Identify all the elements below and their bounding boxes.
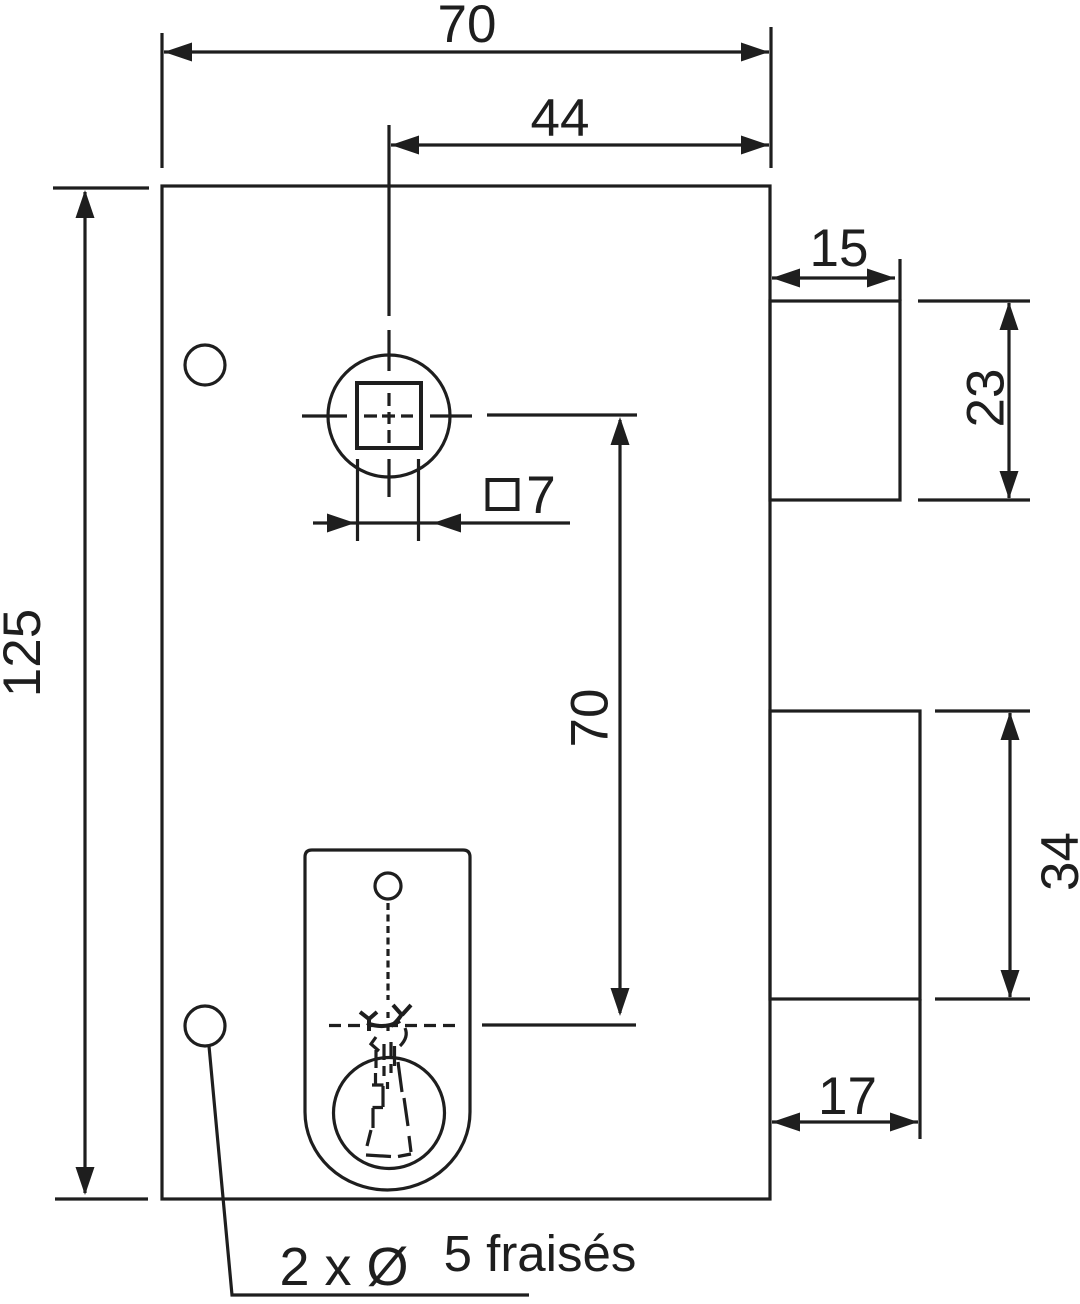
keyhole dashed vertical centerline — [386, 903, 389, 1000]
follower vertical center mark dashes — [387, 393, 390, 443]
svg-text:2 x Ø: 2 x Ø — [279, 1237, 408, 1297]
dim 17: dimension line — [772, 1120, 918, 1123]
dim 70 top: right extension line — [769, 27, 772, 168]
dim 125: top extension line — [53, 186, 149, 189]
dim 70 vertical: top extension line — [487, 413, 637, 416]
dim 70 vertical: top arrow — [611, 417, 630, 445]
follower vertical centerline below — [387, 459, 390, 497]
square symbol of label 7 — [488, 480, 518, 509]
follower square hole 7x7 — [357, 383, 421, 448]
svg-text:5 fraisés: 5 fraisés — [444, 1225, 637, 1282]
svg-text:7: 7 — [526, 466, 555, 525]
dim 70 top: left arrow — [164, 43, 192, 62]
follower neck line right — [417, 459, 420, 541]
dim 44: left arrow — [391, 136, 419, 155]
dim 70 top: dimension line — [164, 50, 769, 53]
dim 44: right arrow — [741, 136, 769, 155]
faceplate right extension line — [898, 259, 901, 301]
hidden key silhouette: head right hook — [391, 1005, 411, 1026]
dim 17: right arrow — [890, 1113, 918, 1132]
dim 70 top: right arrow — [741, 43, 769, 62]
hidden key silhouette: right lower hook — [400, 1028, 406, 1046]
dim 34: bottom extension line — [935, 997, 1030, 1000]
dim 15: left arrow — [772, 269, 800, 288]
follower horizontal centerline left tick — [302, 414, 347, 417]
dim 23: top arrow — [1000, 302, 1019, 330]
svg-text:70: 70 — [438, 0, 497, 54]
dim 125: dimension line — [83, 192, 86, 1193]
dim 7: right arrow (points left) — [433, 514, 461, 533]
keyhole cylinder housing outline — [305, 850, 470, 1190]
hidden key silhouette: bottom dashes — [366, 1154, 411, 1157]
dim 34: bottom arrow — [1001, 970, 1020, 998]
follower horizontal centerline right tick — [430, 414, 472, 417]
hidden key silhouette: head left Y mark — [360, 1012, 377, 1031]
keyhole dashed horizontal centerline — [329, 1024, 456, 1027]
svg-text:34: 34 — [1031, 832, 1080, 891]
dim 34: top arrow — [1001, 712, 1020, 740]
bolt right extension line down — [918, 999, 921, 1139]
dim 125: bottom arrow — [76, 1167, 95, 1195]
follower vertical centerline upper — [387, 125, 390, 316]
keyhole big circle — [334, 1058, 445, 1169]
follower circle — [328, 355, 450, 477]
dim 125: bottom extension line — [55, 1197, 148, 1200]
dim 23: bottom extension line — [918, 498, 1030, 501]
dim 23: bottom arrow — [1000, 471, 1019, 499]
keyhole top small circle — [375, 873, 401, 899]
dim 15: dimension line — [772, 276, 895, 279]
hidden key silhouette: right diagonal dashes — [398, 1062, 411, 1152]
dim 34: dimension line — [1008, 713, 1011, 997]
dim 23: dimension line — [1007, 303, 1010, 498]
svg-text:17: 17 — [818, 1067, 877, 1126]
follower horizontal center mark dashes — [364, 414, 413, 417]
dim 7: left arrow (points right) — [327, 514, 355, 533]
dim 44: dimension line — [391, 143, 769, 146]
dim 70 vertical: bottom extension line — [482, 1023, 636, 1026]
dim 70 vertical: dimension line — [618, 420, 621, 1013]
svg-text:70: 70 — [561, 689, 620, 748]
dim 7: dimension line — [313, 521, 570, 524]
svg-text:44: 44 — [531, 89, 590, 148]
hidden key silhouette: left bit steps — [367, 1073, 384, 1146]
dim 125: top arrow — [76, 190, 95, 218]
dim 70 top: left extension line — [160, 33, 163, 168]
lock body outline — [162, 186, 770, 1199]
svg-text:125: 125 — [0, 609, 52, 697]
svg-text:23: 23 — [957, 369, 1016, 428]
hidden key silhouette: center dots in head — [386, 1012, 389, 1031]
dim 70 vertical: bottom arrow — [611, 988, 630, 1016]
hole top-left — [185, 345, 225, 385]
top faceplate box (15x23) — [770, 301, 900, 500]
leader line from bottom-left hole — [209, 1046, 529, 1295]
bolt box (17x34) — [770, 711, 920, 999]
dim 34: top extension line — [935, 709, 1030, 712]
hole bottom-left — [185, 1006, 225, 1046]
hidden key silhouette: left shoulder — [371, 1037, 379, 1051]
follower neck line left — [356, 459, 359, 541]
dim 17: left arrow — [772, 1113, 800, 1132]
hidden key silhouette: head smile arc — [367, 1021, 400, 1026]
dim 23: top extension line — [918, 299, 1030, 302]
svg-text:15: 15 — [810, 219, 869, 278]
hidden key silhouette: stem dashes — [376, 1042, 395, 1089]
follower vertical centerline dash — [387, 330, 390, 371]
dim 15: right arrow — [867, 269, 895, 288]
